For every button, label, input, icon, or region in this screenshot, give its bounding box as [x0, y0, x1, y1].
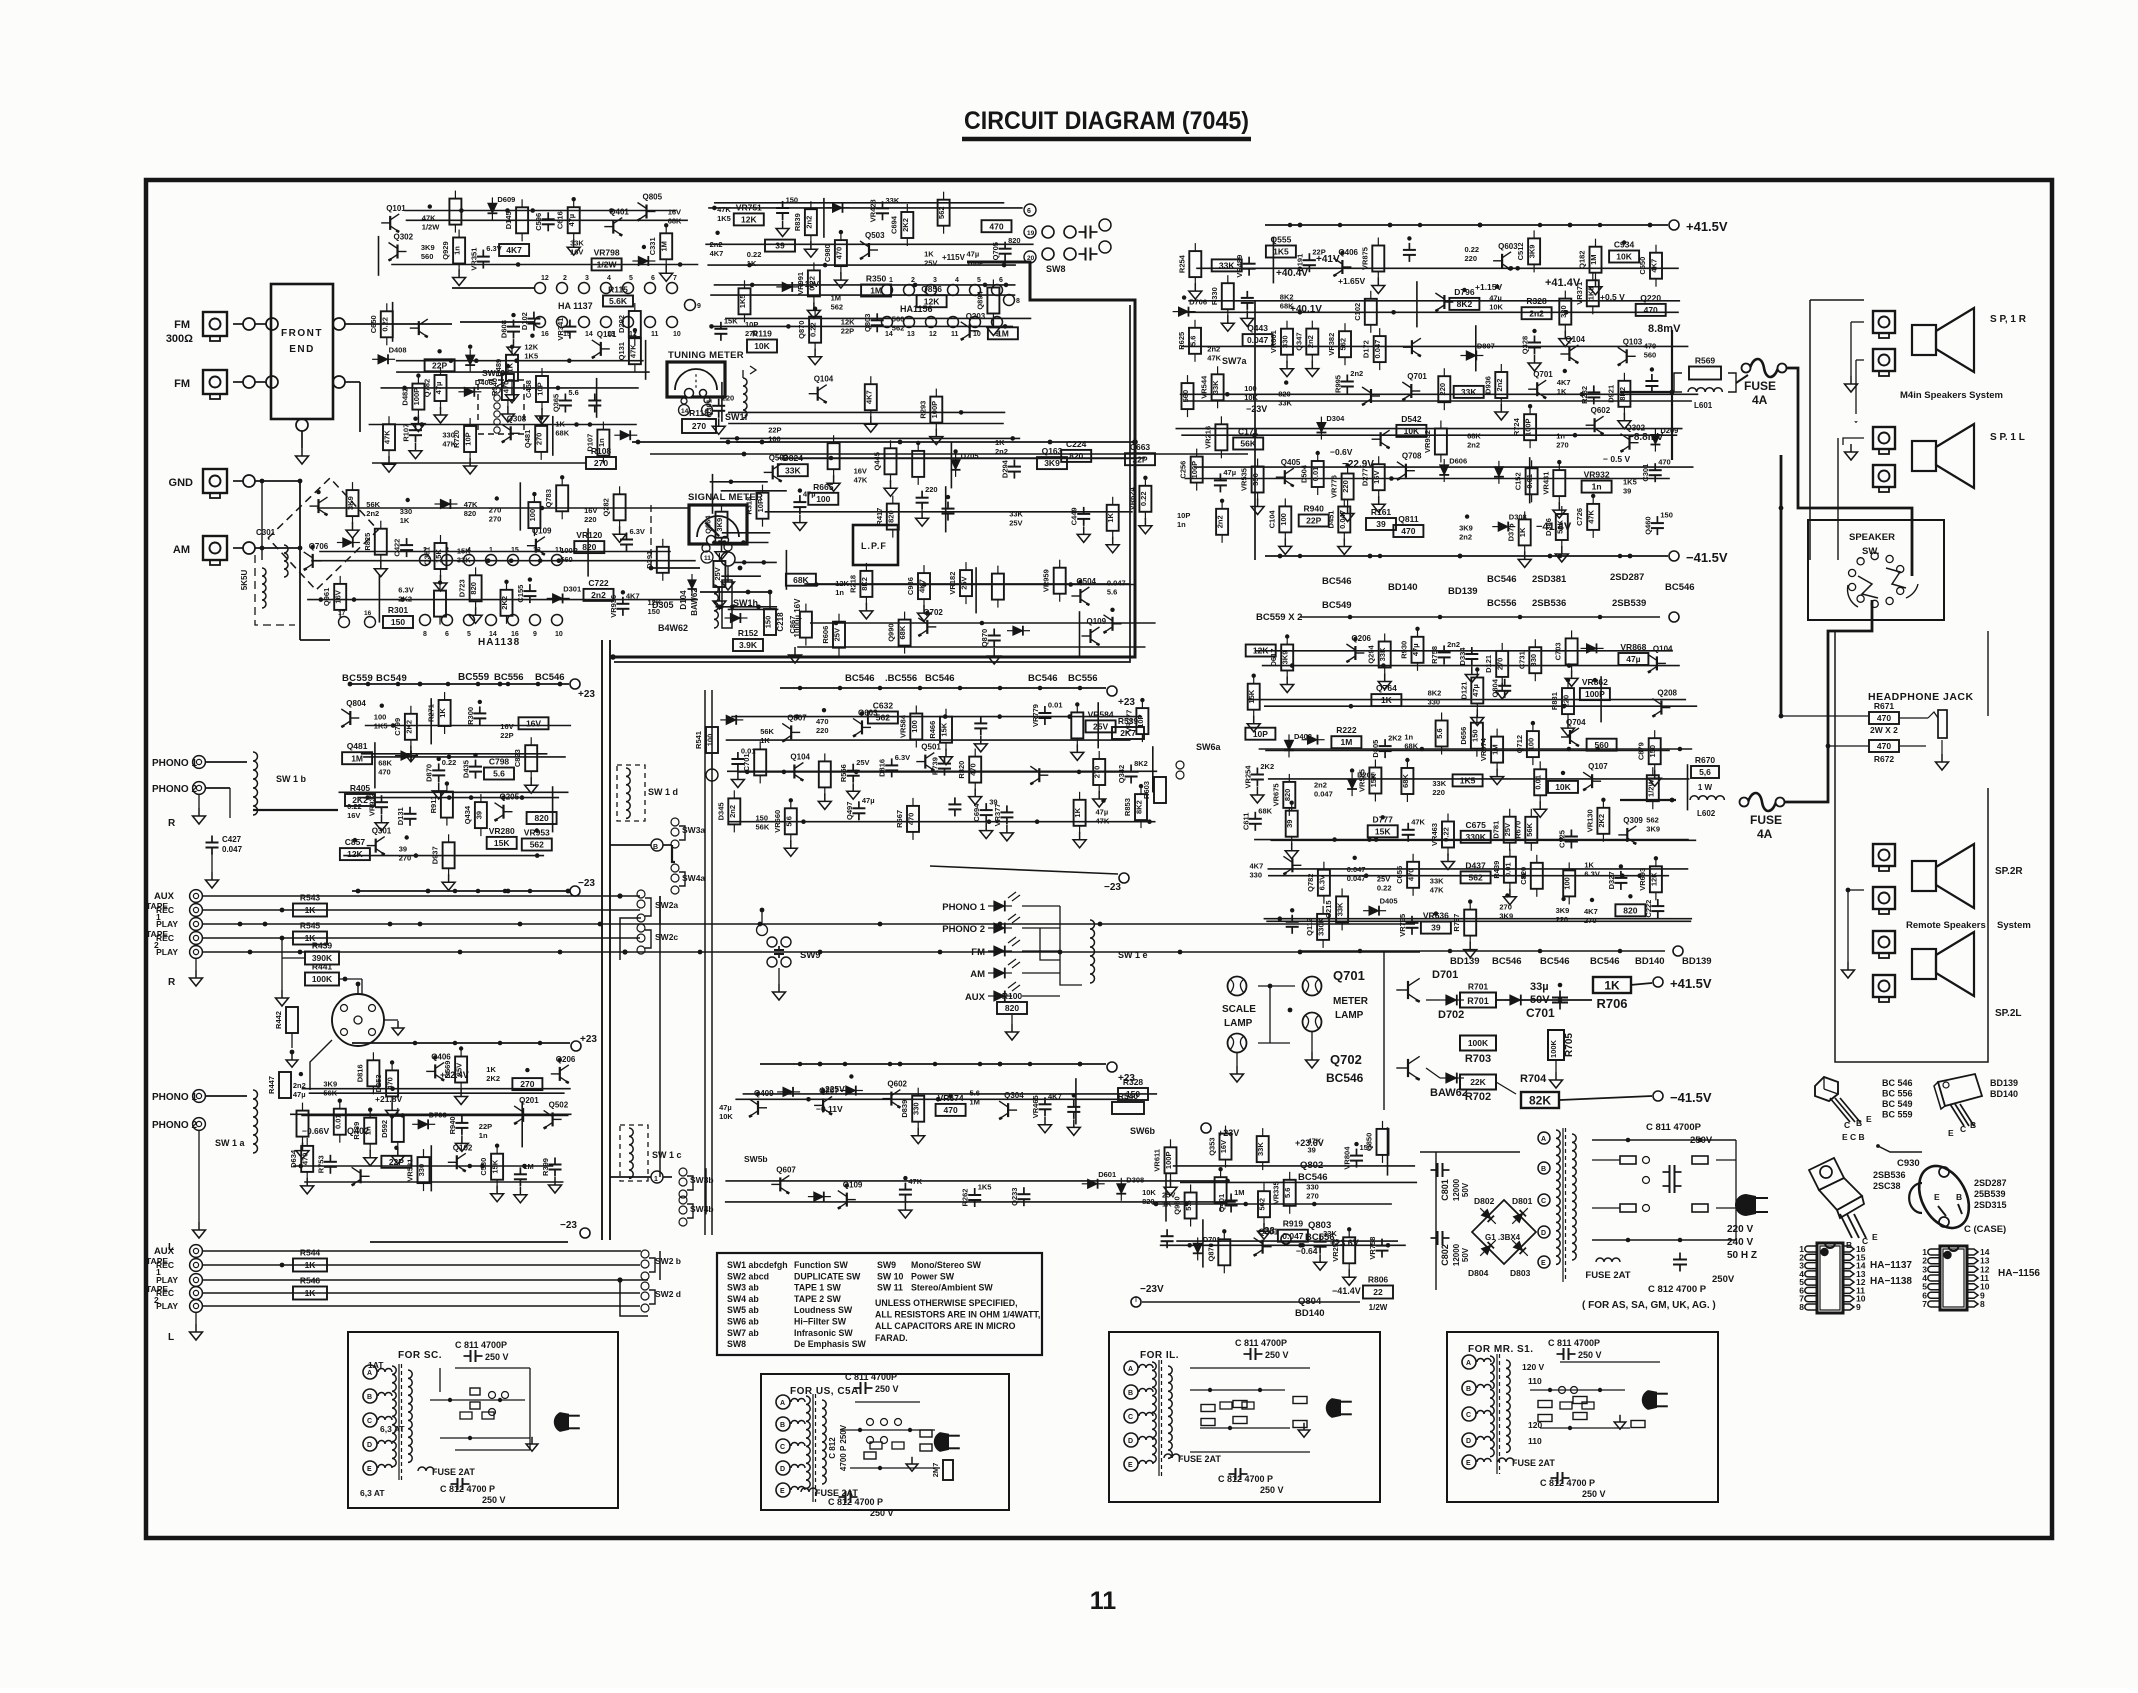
svg-text:150: 150	[1648, 745, 1657, 758]
svg-text:470: 470	[378, 768, 391, 777]
svg-text:VR936: VR936	[609, 595, 618, 618]
svg-text:12K: 12K	[835, 579, 849, 588]
svg-text:Q870: Q870	[797, 321, 806, 339]
svg-text:R625: R625	[1177, 332, 1186, 350]
svg-text:1K: 1K	[305, 1288, 317, 1298]
svg-text:BD140: BD140	[1635, 956, 1665, 967]
svg-text:Q481: Q481	[523, 430, 532, 448]
svg-text:SP.2L: SP.2L	[1995, 1008, 2022, 1019]
svg-text:VR661: VR661	[1269, 330, 1278, 353]
svg-text:C301: C301	[1641, 464, 1650, 482]
svg-text:47µ: 47µ	[1223, 468, 1236, 477]
svg-text:2n2: 2n2	[1314, 780, 1327, 789]
svg-text:R720: R720	[452, 430, 461, 448]
svg-text:0.047: 0.047	[1247, 335, 1269, 345]
svg-text:14: 14	[681, 408, 689, 415]
svg-text:D: D	[367, 1442, 372, 1449]
svg-text:CIRCUIT DIAGRAM (7045): CIRCUIT DIAGRAM (7045)	[964, 107, 1249, 135]
svg-text:330K: 330K	[1317, 917, 1326, 936]
svg-text:R405: R405	[350, 783, 371, 793]
svg-text:SW 11: SW 11	[877, 1283, 903, 1293]
svg-text:2n2: 2n2	[1459, 533, 1472, 542]
svg-text:Q990: Q990	[887, 623, 896, 641]
svg-text:VR804: VR804	[1343, 1146, 1352, 1170]
svg-text:C218: C218	[776, 612, 785, 632]
svg-text:C799: C799	[393, 718, 402, 736]
svg-text:BC546: BC546	[1590, 956, 1620, 967]
svg-text:1K5: 1K5	[1273, 247, 1289, 257]
svg-text:R737: R737	[1452, 914, 1461, 932]
svg-text:Q555: Q555	[1271, 235, 1292, 245]
svg-text:SPEAKER: SPEAKER	[1849, 532, 1895, 543]
svg-text:2n2: 2n2	[293, 1081, 306, 1090]
svg-text:220: 220	[1556, 915, 1569, 924]
svg-text:− 0.5 V: − 0.5 V	[1603, 454, 1631, 464]
svg-text:−0.6V: −0.6V	[1330, 447, 1353, 457]
svg-text:5.6: 5.6	[970, 1089, 980, 1098]
svg-text:1M: 1M	[1589, 254, 1598, 264]
svg-text:1K: 1K	[1518, 527, 1527, 537]
svg-text:1K: 1K	[555, 420, 565, 429]
svg-text:56K: 56K	[1240, 439, 1256, 449]
svg-text:Q309: Q309	[1623, 816, 1643, 825]
svg-text:REC: REC	[156, 905, 174, 915]
svg-text:−23: −23	[578, 878, 595, 889]
svg-text:Q131: Q131	[617, 342, 626, 360]
svg-text:0.01: 0.01	[1503, 862, 1512, 877]
svg-text:PLAY: PLAY	[156, 947, 178, 957]
svg-text:C155: C155	[516, 585, 525, 603]
svg-text:3: 3	[933, 277, 937, 284]
svg-text:47µ: 47µ	[567, 214, 576, 227]
svg-text:25V: 25V	[1093, 721, 1108, 731]
svg-text:562: 562	[876, 713, 890, 723]
svg-text:Q342: Q342	[1117, 765, 1126, 783]
svg-text:330: 330	[1559, 305, 1568, 318]
svg-text:BC546: BC546	[1326, 1071, 1364, 1085]
svg-text:HA−1156: HA−1156	[1998, 1268, 2040, 1279]
svg-text:E C B: E C B	[1842, 1132, 1865, 1142]
svg-text:BC546: BC546	[1322, 576, 1352, 587]
svg-text:Q220: Q220	[1640, 293, 1661, 303]
svg-text:5,6: 5,6	[1699, 767, 1711, 777]
svg-text:R340: R340	[490, 378, 499, 396]
svg-text:Q497: Q497	[845, 802, 854, 820]
svg-text:1M: 1M	[523, 1162, 533, 1171]
svg-text:Q929: Q929	[441, 241, 450, 259]
svg-text:5.6: 5.6	[1283, 1188, 1292, 1198]
svg-text:B: B	[780, 1422, 785, 1429]
svg-text:Q163: Q163	[1042, 446, 1063, 456]
svg-text:Q381: Q381	[423, 547, 432, 565]
svg-text:D701: D701	[1432, 969, 1458, 981]
svg-text:−41.4V: −41.4V	[1332, 1286, 1361, 1296]
svg-text:A: A	[367, 1370, 372, 1377]
svg-text:Q701: Q701	[1533, 370, 1553, 379]
svg-text:Hi−Filter SW: Hi−Filter SW	[794, 1317, 847, 1327]
svg-text:BC546: BC546	[1540, 956, 1570, 967]
svg-text:16V: 16V	[584, 506, 597, 515]
svg-text:Q850: Q850	[1365, 1133, 1374, 1151]
svg-text:D781: D781	[1492, 821, 1501, 839]
svg-text:D172: D172	[1362, 340, 1371, 358]
svg-text:15K: 15K	[1369, 773, 1378, 787]
svg-text:Q308: Q308	[507, 414, 527, 423]
svg-text:FUSE 2AT: FUSE 2AT	[1178, 1454, 1221, 1464]
svg-text:BC546: BC546	[1492, 956, 1522, 967]
svg-text:+23: +23	[578, 689, 595, 700]
svg-text:VR798: VR798	[594, 247, 620, 257]
svg-text:R541: R541	[694, 731, 703, 749]
svg-text:15K: 15K	[434, 549, 443, 563]
svg-text:6.3V: 6.3V	[630, 527, 645, 536]
svg-text:FARAD.: FARAD.	[875, 1333, 908, 1343]
svg-text:5K5U: 5K5U	[240, 570, 249, 591]
svg-text:VR335: VR335	[1272, 1181, 1281, 1204]
svg-text:R706: R706	[1596, 996, 1627, 1011]
svg-text:9: 9	[995, 331, 999, 338]
svg-text:FOR IL.: FOR IL.	[1140, 1350, 1179, 1361]
svg-text:R670: R670	[1513, 821, 1522, 839]
svg-text:Q112: Q112	[1305, 918, 1314, 936]
svg-text:330: 330	[912, 1102, 921, 1115]
svg-text:2n2: 2n2	[1216, 515, 1225, 528]
svg-text:8K2: 8K2	[1135, 800, 1144, 814]
svg-text:820: 820	[1623, 905, 1637, 915]
svg-text:33K: 33K	[1432, 779, 1446, 788]
svg-text:3K9: 3K9	[421, 243, 435, 252]
svg-text:Q201: Q201	[519, 1096, 539, 1105]
svg-text:BC 549: BC 549	[1882, 1099, 1913, 1109]
svg-text:1/2W: 1/2W	[422, 223, 440, 232]
svg-text:Q708: Q708	[1402, 452, 1422, 461]
svg-text:39: 39	[775, 241, 785, 251]
svg-text:1K: 1K	[1162, 1200, 1172, 1209]
svg-text:C 811 4700P: C 811 4700P	[1646, 1122, 1702, 1133]
svg-text:Remote Speakers: Remote Speakers	[1906, 920, 1986, 931]
svg-text:+12V: +12V	[800, 280, 820, 289]
svg-text:Q803: Q803	[1308, 1220, 1331, 1231]
svg-text:1M: 1M	[870, 286, 882, 296]
svg-text:3K9: 3K9	[323, 1080, 337, 1089]
svg-text:VR351: VR351	[469, 248, 478, 271]
svg-text:270: 270	[1556, 441, 1569, 450]
svg-text:3K9: 3K9	[1499, 912, 1513, 921]
svg-text:1K: 1K	[486, 1065, 496, 1074]
svg-text:Q282: Q282	[602, 498, 611, 516]
svg-text:AM: AM	[173, 544, 190, 556]
svg-text:C596: C596	[534, 213, 543, 231]
svg-text:14: 14	[585, 331, 593, 338]
svg-text:HA−1137: HA−1137	[1870, 1260, 1912, 1271]
svg-text:PHONO 2: PHONO 2	[152, 1120, 197, 1131]
svg-text:G1 .3BX4: G1 .3BX4	[1485, 1233, 1521, 1242]
svg-text:R222: R222	[1336, 725, 1357, 735]
svg-text:D253: D253	[374, 1074, 383, 1092]
svg-text:R399: R399	[541, 1158, 550, 1176]
svg-text:3K9: 3K9	[1044, 458, 1060, 468]
svg-text:68K: 68K	[668, 217, 682, 226]
svg-text:Q807: Q807	[787, 713, 807, 722]
svg-text:10: 10	[673, 331, 681, 338]
svg-text:B: B	[1541, 1166, 1546, 1173]
svg-text:D617: D617	[1269, 649, 1278, 667]
svg-text:2n2: 2n2	[1529, 308, 1544, 318]
svg-text:12K: 12K	[841, 318, 855, 327]
svg-text:220: 220	[722, 393, 735, 402]
svg-text:C655: C655	[1395, 866, 1404, 884]
svg-text:0.047: 0.047	[1347, 865, 1366, 874]
svg-text:47µ: 47µ	[1096, 808, 1109, 817]
svg-text:33K: 33K	[570, 239, 584, 248]
svg-text:1K: 1K	[305, 905, 317, 915]
svg-text:330K: 330K	[1466, 832, 1487, 842]
svg-text:0.22: 0.22	[747, 250, 762, 259]
svg-text:1M: 1M	[1234, 1188, 1244, 1197]
svg-text:16V: 16V	[1372, 471, 1381, 484]
svg-text:47K: 47K	[717, 205, 731, 214]
svg-text:Q805: Q805	[643, 193, 663, 202]
svg-text:0.01: 0.01	[1311, 467, 1320, 482]
svg-text:C331: C331	[648, 237, 657, 255]
svg-text:FM: FM	[174, 319, 190, 331]
svg-text:D405: D405	[1380, 897, 1398, 906]
svg-text:Q803: Q803	[863, 314, 872, 332]
svg-text:VR535: VR535	[1240, 468, 1249, 491]
svg-text:270: 270	[1584, 916, 1597, 925]
svg-text:R328: R328	[1123, 1077, 1144, 1087]
svg-text:FOR US, C5A.: FOR US, C5A.	[790, 1386, 862, 1397]
svg-text:FUSE: FUSE	[1750, 813, 1782, 827]
svg-text:2n2: 2n2	[710, 240, 723, 249]
svg-text:METER: METER	[1333, 996, 1369, 1007]
svg-text:22K: 22K	[1470, 1077, 1486, 1087]
svg-text:220: 220	[1562, 695, 1571, 708]
svg-text:+1.65V: +1.65V	[1338, 276, 1366, 286]
svg-text:150: 150	[391, 617, 405, 627]
svg-text:R603: R603	[1142, 781, 1151, 799]
svg-text:R667: R667	[895, 810, 904, 828]
svg-text:270: 270	[1306, 1192, 1319, 1201]
svg-text:12: 12	[929, 331, 937, 338]
svg-text:L.P.F: L.P.F	[861, 541, 887, 551]
svg-text:100: 100	[528, 509, 537, 522]
svg-text:C449: C449	[1070, 507, 1079, 525]
svg-text:10K: 10K	[1489, 303, 1503, 312]
svg-text:D702: D702	[1438, 1009, 1464, 1021]
svg-text:0.22: 0.22	[442, 758, 457, 767]
svg-text:2n2: 2n2	[1350, 369, 1363, 378]
svg-text:Q501: Q501	[921, 743, 941, 752]
svg-text:C726: C726	[1575, 508, 1584, 526]
svg-text:10K: 10K	[1616, 252, 1632, 262]
svg-text:D: D	[1466, 1438, 1471, 1445]
svg-text:8: 8	[1980, 1299, 1985, 1309]
svg-text:1n: 1n	[1404, 733, 1413, 742]
svg-text:D301: D301	[563, 584, 581, 593]
svg-text:E: E	[1466, 1460, 1471, 1467]
svg-text:Q233: Q233	[1010, 1188, 1019, 1206]
svg-text:220 V: 220 V	[1727, 1224, 1753, 1235]
svg-text:562: 562	[1646, 816, 1659, 825]
svg-text:2n2: 2n2	[728, 805, 737, 818]
svg-text:Q434: Q434	[463, 805, 472, 824]
svg-text:2n2: 2n2	[995, 447, 1008, 456]
svg-text:BC 559: BC 559	[1882, 1110, 1913, 1120]
svg-text:1M: 1M	[970, 1098, 980, 1107]
svg-text:VR120: VR120	[576, 530, 602, 540]
svg-text:Q104: Q104	[1653, 644, 1673, 653]
svg-text:C722: C722	[588, 578, 609, 588]
svg-text:PHONO 2: PHONO 2	[152, 784, 197, 795]
svg-text:15K: 15K	[457, 546, 471, 555]
svg-text:VR779: VR779	[1031, 704, 1040, 727]
svg-text:100: 100	[1563, 877, 1572, 890]
svg-text:2SB536: 2SB536	[1532, 598, 1566, 609]
svg-text:R705: R705	[1564, 1033, 1575, 1057]
svg-text:R543: R543	[300, 893, 321, 903]
svg-text:Q502: Q502	[549, 1100, 569, 1109]
svg-text:R820: R820	[957, 761, 966, 779]
svg-text:C222: C222	[1644, 900, 1653, 918]
svg-text:5.6: 5.6	[1184, 1200, 1193, 1210]
svg-text:Q102: Q102	[453, 1143, 473, 1152]
svg-text:3: 3	[585, 275, 589, 282]
svg-text:3K9: 3K9	[1281, 651, 1290, 665]
svg-text:12: 12	[541, 275, 549, 282]
svg-text:−23: −23	[1104, 882, 1121, 893]
svg-text:33K: 33K	[1219, 261, 1235, 271]
svg-text:D451: D451	[1326, 511, 1335, 529]
svg-text:SW 1 c: SW 1 c	[652, 1150, 682, 1160]
svg-text:2SC38: 2SC38	[1873, 1181, 1901, 1191]
svg-text:R330: R330	[1210, 287, 1219, 305]
svg-text:C701: C701	[1526, 1006, 1555, 1020]
svg-text:E: E	[1872, 1232, 1878, 1242]
svg-text:D839: D839	[900, 1100, 909, 1118]
svg-text:68K: 68K	[1404, 742, 1418, 751]
svg-text:5.6: 5.6	[568, 388, 578, 397]
svg-text:C256: C256	[1179, 461, 1188, 479]
svg-text:330: 330	[1428, 698, 1441, 707]
svg-text:4K7: 4K7	[1650, 259, 1659, 273]
svg-text:SCALE: SCALE	[1222, 1004, 1256, 1015]
svg-text:FUSE 2AT: FUSE 2AT	[1512, 1458, 1555, 1468]
svg-text:3K9: 3K9	[1556, 906, 1570, 915]
svg-text:47K: 47K	[628, 344, 637, 358]
svg-text:FM: FM	[971, 947, 985, 958]
svg-text:C (CASE): C (CASE)	[1964, 1224, 2006, 1235]
svg-text:1M: 1M	[1340, 737, 1352, 747]
svg-text:HA1138: HA1138	[478, 637, 520, 648]
svg-text:Q804: Q804	[346, 699, 366, 708]
svg-text:820: 820	[1008, 236, 1021, 245]
svg-text:Infrasonic SW: Infrasonic SW	[794, 1328, 853, 1338]
svg-text:9: 9	[1856, 1302, 1861, 1312]
svg-text:100: 100	[1244, 384, 1257, 393]
svg-text:470: 470	[301, 1153, 310, 1166]
svg-text:+115V: +115V	[942, 253, 966, 262]
svg-text:D145: D145	[504, 211, 513, 229]
svg-text:56K: 56K	[756, 822, 770, 831]
svg-text:8K2: 8K2	[1428, 689, 1442, 698]
svg-text:100: 100	[1279, 513, 1288, 526]
svg-text:3K9: 3K9	[1646, 825, 1660, 834]
svg-text:D804: D804	[1468, 1268, 1489, 1278]
svg-text:47µ: 47µ	[1471, 684, 1480, 697]
svg-text:BC556: BC556	[1487, 598, 1517, 609]
svg-text:D375: D375	[1507, 523, 1516, 541]
svg-text:33K: 33K	[886, 196, 900, 205]
svg-text:470: 470	[989, 221, 1003, 231]
svg-text:56K: 56K	[366, 500, 380, 509]
svg-text:R670: R670	[1695, 755, 1716, 765]
svg-text:C: C	[780, 1444, 785, 1451]
svg-text:470: 470	[1644, 342, 1657, 351]
svg-text:FOR MR. S1.: FOR MR. S1.	[1468, 1344, 1534, 1355]
svg-text:D345: D345	[716, 802, 725, 820]
svg-text:Q764: Q764	[1376, 683, 1397, 693]
svg-text:C224: C224	[1066, 439, 1087, 449]
svg-text:Power SW: Power SW	[911, 1271, 955, 1281]
svg-text:2K2: 2K2	[1597, 814, 1606, 828]
svg-text:SW 1 a: SW 1 a	[215, 1138, 246, 1148]
svg-text:SW8: SW8	[1046, 264, 1066, 274]
svg-text:VR693: VR693	[1638, 868, 1647, 891]
svg-text:C 812 4700 P: C 812 4700 P	[1218, 1474, 1273, 1484]
svg-text:C801: C801	[1440, 1179, 1450, 1201]
svg-text:D807: D807	[1477, 342, 1495, 351]
svg-text:68K: 68K	[1258, 806, 1272, 815]
svg-text:250 V: 250 V	[485, 1352, 509, 1362]
svg-text:25V: 25V	[833, 628, 842, 641]
svg-text:820: 820	[464, 509, 477, 518]
svg-text:R606: R606	[821, 626, 830, 644]
svg-text:R301: R301	[388, 605, 409, 615]
svg-text:VR182: VR182	[948, 572, 957, 595]
svg-text:4: 4	[955, 277, 959, 284]
svg-text:14: 14	[885, 331, 893, 338]
svg-text:R919: R919	[1283, 1219, 1304, 1229]
svg-text:C986: C986	[906, 577, 915, 595]
svg-text:Q301: Q301	[1259, 1228, 1279, 1237]
svg-text:D801: D801	[1512, 1196, 1533, 1206]
svg-text:Q811: Q811	[1398, 514, 1419, 524]
svg-text:5.6: 5.6	[493, 769, 505, 779]
svg-text:B: B	[1466, 1386, 1471, 1393]
svg-text:150: 150	[1470, 729, 1479, 742]
svg-text:D: D	[780, 1466, 785, 1473]
svg-text:33K: 33K	[1211, 380, 1220, 394]
svg-text:BD140: BD140	[1388, 582, 1418, 593]
svg-text:R300: R300	[466, 707, 475, 725]
svg-text:C 812 4700 P: C 812 4700 P	[1648, 1284, 1707, 1295]
svg-text:.BC556: .BC556	[885, 673, 917, 684]
svg-text:VR489: VR489	[1235, 255, 1244, 278]
svg-text:110: 110	[1528, 1436, 1542, 1446]
svg-text:R701: R701	[1468, 982, 1489, 992]
svg-text:SW9: SW9	[800, 950, 821, 961]
svg-text:22P: 22P	[841, 327, 854, 336]
svg-text:R546: R546	[300, 1276, 321, 1286]
svg-text:R940: R940	[448, 1116, 457, 1134]
svg-text:+1.15V: +1.15V	[1475, 282, 1503, 292]
svg-text:+23.6V: +23.6V	[1295, 1138, 1324, 1148]
svg-text:TUNING METER: TUNING METER	[668, 350, 744, 361]
svg-text:BC546: BC546	[925, 673, 955, 684]
svg-text:D121: D121	[1459, 682, 1468, 700]
svg-text:R739: R739	[931, 757, 940, 775]
